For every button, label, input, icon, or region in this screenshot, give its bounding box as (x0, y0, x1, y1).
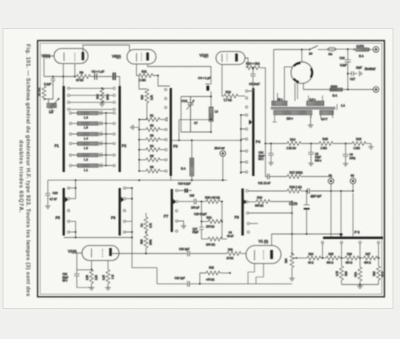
resistor R7 (grid leak, vertical) (42, 86, 46, 100)
wire row 3 (70, 101, 113, 103)
terminal lower (373, 87, 379, 93)
resistor R19 (390k) (248, 201, 256, 203)
wire V2 anode to V3 top (83, 45, 130, 52)
wire P8 mid contact stub (250, 223, 258, 225)
wire P7 contact to ground stub (178, 221, 184, 226)
wire mid column (156, 268, 158, 284)
transformer secondary 6,3V right (320, 110, 334, 114)
resistor ladder bus (134, 120, 140, 172)
wire C22 top to cathode resistor (77, 269, 92, 271)
wire V2 grid down (62, 64, 64, 87)
capacitor C6 with ground (343, 144, 349, 164)
switch wafer P8 (241, 189, 243, 236)
bleeder resistor vertical 1 (341, 258, 343, 266)
capacitor CA79 branch (304, 191, 310, 205)
P1 contact (68, 94, 70, 96)
P6 contact wires to column (126, 188, 132, 232)
P4 contact bus (240, 115, 242, 173)
P7 wiper (173, 199, 176, 204)
wire P5 contact 1 (70, 187, 76, 189)
wire choke to bus (191, 176, 193, 180)
wire column to P9 region (292, 233, 341, 235)
P2 contact (113, 94, 115, 96)
choke L7 (vertical) (209, 107, 213, 122)
V3 grid electrode (136, 53, 138, 62)
transformer primary winding 110v (274, 110, 312, 114)
V1p anode plate (235, 54, 238, 62)
coil L3 (72, 143, 113, 145)
wire C3 to P2 (115, 77, 120, 87)
resistor R13 (222, 65, 224, 97)
capacitor C10 with ground (268, 144, 273, 163)
resistor R16 (352, 142, 366, 146)
screen resistor (0,15) vertical (107, 261, 109, 270)
transformer 6,3v winding stubs up (309, 96, 323, 102)
resistor R15 (319, 142, 333, 146)
resistor R23 vertical (144, 234, 148, 248)
row with 180pF cap and R19b (178, 201, 193, 203)
P9 wiper arrow (339, 234, 343, 237)
capacitor C5 (248, 68, 256, 91)
V1c grid electrode (254, 250, 256, 261)
resistor R14 (287, 142, 301, 146)
wire V1c anode up and right (272, 234, 292, 246)
P3 upper contacts (165, 88, 167, 90)
resistor R11 (137, 64, 140, 76)
wire R8/C2 row (44, 76, 113, 78)
wire tube left to transformer (284, 67, 292, 96)
main lower bus wire (48, 179, 227, 181)
resistor R10b vertical (139, 76, 147, 90)
wire C4 to choke L7 (210, 91, 212, 107)
resistor R24 (307, 256, 321, 260)
capacitor C13 (308, 188, 310, 194)
resistor R22b bottom row (202, 238, 209, 240)
wire row B (132, 267, 157, 269)
V1s anode plate (109, 248, 112, 256)
node junctions on row (62, 76, 64, 78)
ground on ladder bus (131, 125, 134, 130)
wire row 4 (70, 108, 113, 110)
bottom tie wire (342, 284, 379, 286)
P8 contacts (246, 190, 248, 192)
resistor pair column (145, 213, 147, 217)
variable inductor L8 (47, 103, 57, 108)
ground under screen resistor (105, 288, 110, 291)
trimmer rows between P1 and P2 (68, 87, 116, 110)
resistor R27 (364, 256, 378, 260)
coil L5 (72, 122, 113, 124)
coil bank L6..L1 (69, 111, 115, 172)
V1p cathode electrode (226, 54, 228, 62)
V2 cathode electrode (74, 53, 76, 61)
switch wafer P9 (horizontal) (323, 237, 383, 239)
wire S1 down to P9 (330, 183, 332, 236)
triode V1(c) envelope (246, 246, 281, 264)
ladder resistors R1-R6 (138, 114, 167, 173)
wiper feed wire down to P9 (340, 191, 342, 235)
wire Mod ext down to bus (222, 156, 224, 180)
V2 anode plate (82, 52, 85, 60)
wire V3 anode to C4 (148, 64, 211, 85)
P6 contacts (123, 187, 125, 189)
V3 cathode electrode (141, 53, 143, 61)
rectifier anode arc top (294, 63, 301, 66)
P4 upper contacts (246, 90, 248, 92)
resistor R17 (287, 175, 301, 179)
switch wafer P5 (63, 188, 65, 236)
capacitor C18b (188, 251, 190, 257)
rectifier cathode arc bottom-left (294, 79, 299, 83)
resistor R21 (202, 221, 209, 223)
P2 contact (113, 101, 115, 103)
wire R11 to P3 (153, 76, 170, 87)
terminal HT+ (373, 47, 379, 53)
fuse fus (328, 47, 336, 51)
capacitor C5b with ground (308, 144, 314, 164)
capacitor C3 (113, 73, 115, 81)
wire tube right-bottom to lower rail (303, 83, 329, 89)
resistor R12 (245, 58, 248, 68)
right column (221, 202, 223, 240)
P3 wiper (164, 117, 167, 122)
capacitor C15 on P7 contact 1 (178, 190, 192, 192)
capacitor C2 (95, 73, 97, 79)
row with C11 and R17 (265, 144, 287, 177)
P7 contacts (176, 189, 178, 191)
arrow from HT column to chain (292, 257, 307, 259)
ground under cathode resistor (89, 288, 94, 291)
wire S2 down to P9 (352, 193, 354, 236)
wire P5 contact 4 (70, 221, 76, 237)
bleeder resistor vertical 2 (359, 258, 361, 267)
switch wafer P2 (119, 86, 121, 172)
switch Int (309, 49, 311, 51)
resistor R2 (139, 129, 146, 131)
P5 contacts (68, 187, 70, 189)
ground below L8 (51, 108, 53, 111)
cathode resistor (0,56) vertical (91, 261, 93, 270)
wire V2 left to grid network (44, 56, 54, 77)
lower supply rail 4000 B A (329, 89, 373, 91)
V3 anode plate (146, 53, 149, 61)
wire bus down to P5 wiper row (70, 180, 76, 199)
resistor R1 (139, 119, 146, 121)
transformer primary vertical feeds (274, 50, 295, 102)
bleeder resistor vertical 3 (378, 258, 380, 266)
resistor R19b (206, 200, 220, 204)
P1 contact (68, 108, 70, 110)
ground under transformer (310, 115, 312, 125)
P5 wiper (65, 197, 68, 202)
row with capacitor C18b (112, 253, 187, 255)
RF choke C14 (vertical) (191, 140, 193, 158)
transformer core (271, 107, 336, 109)
coil L2 (72, 154, 113, 156)
bottom rail wire (64, 237, 132, 239)
V1c anode plate (270, 250, 273, 259)
coil L4 (72, 133, 113, 135)
resistor R31 (227, 252, 241, 256)
wire V2 cathode down (74, 64, 76, 77)
ground on tie wire (359, 285, 361, 287)
capacitor C17 with ground (347, 73, 349, 75)
V1c stepped wires down (248, 264, 264, 284)
wire row 1 (70, 87, 113, 89)
wire P6 column (131, 188, 133, 268)
chassis ground right of R16 (370, 144, 372, 147)
P1 contact (68, 101, 70, 103)
resistor R25 (326, 256, 340, 260)
V2 grid electrode (63, 53, 65, 62)
capacitor C22 (74, 270, 79, 288)
HT column right (291, 202, 293, 279)
HT row with R14 (265, 143, 287, 145)
wire C22 bottom link (77, 287, 92, 289)
switch wafer P4 (252, 88, 254, 176)
wire coil common bus (105, 113, 107, 166)
P2 contact (113, 108, 115, 110)
P4 lower contacts (246, 128, 248, 130)
triode V3(p) envelope (127, 50, 156, 65)
V1s cathode electrode (102, 249, 104, 257)
contact stubs to divider chain (323, 244, 379, 259)
wire R7/C1 bottom join (44, 86, 53, 103)
capacitor C20 with ground (45, 180, 50, 206)
ground at column bottom (289, 278, 294, 281)
switch wafer P6 (119, 188, 121, 236)
resistor R6 (139, 170, 146, 172)
left column with C17 (199, 202, 203, 240)
resistor R26 (345, 256, 359, 260)
wire tube bottom down (295, 80, 298, 99)
schematic border frame inner (40, 43, 382, 294)
triode V2(a) envelope (54, 49, 88, 64)
switch wafer P3 (170, 88, 172, 176)
coil L6 (72, 112, 113, 114)
P2 contact (113, 87, 115, 89)
wire feed to P4 bus (172, 139, 241, 141)
capacitor C1 (51, 77, 55, 87)
P4 contact stub wires (241, 115, 245, 172)
P9 contacts (321, 241, 323, 243)
wire P5 contact 5 (70, 231, 76, 233)
triode V1(s) envelope (82, 246, 119, 261)
wire choke bottom (210, 122, 212, 133)
transformer lead stubs (272, 104, 337, 122)
coil L1 (72, 165, 113, 167)
capacitor C18 (345, 49, 351, 89)
V1c cathode electrode (263, 251, 265, 261)
wire P8 top contact to column (249, 212, 292, 214)
bottom long wire with capacitor C19b (157, 283, 187, 285)
resistor R3 (139, 139, 146, 141)
resistor R18 (287, 189, 301, 193)
rectifier plate arc right (311, 68, 312, 77)
P6 wiper (121, 197, 124, 202)
resistor R8 (77, 75, 91, 79)
resistor R4 (139, 149, 146, 151)
wire R12 to HT column (260, 68, 265, 144)
V1p grid electrode (221, 54, 223, 62)
wire V1s grid left loop (77, 253, 82, 270)
V1s grid electrode (91, 249, 93, 258)
wire trimmer loop link (179, 120, 211, 141)
switch wafer P7 (171, 189, 173, 232)
resistor R30 vertical (290, 254, 294, 268)
resistor R5 (139, 159, 146, 161)
resistor R22 row (200, 273, 206, 284)
resistor R10 (vertical) (100, 88, 104, 102)
wire row 2 (70, 94, 113, 96)
wire tube top to switch rail (274, 50, 309, 62)
row with R18 and C19a (248, 190, 287, 192)
switch wafer P1 (63, 86, 65, 172)
triode V1(p) envelope (216, 52, 245, 65)
rectifier tube (power) (291, 62, 313, 84)
schematic border frame outer (38, 41, 385, 297)
P1 contact (68, 87, 70, 89)
